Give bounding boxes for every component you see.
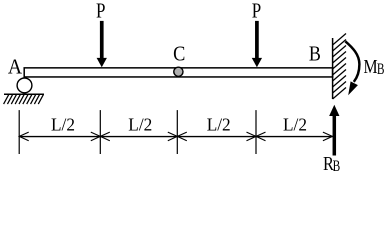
dimension tick below P2	[255, 110, 257, 154]
svg-text:P: P	[252, 0, 261, 23]
svg-text:L/2: L/2	[207, 115, 231, 135]
roller support at A	[17, 78, 32, 93]
moment arrowhead	[348, 81, 358, 95]
svg-text:B: B	[333, 158, 341, 175]
svg-text:M: M	[363, 57, 377, 78]
dimension arrowheads segment 2	[100, 132, 177, 141]
dimension arrowheads segment 4	[256, 132, 332, 141]
dimension tick below C	[176, 110, 178, 154]
fixed wall line at B	[332, 38, 334, 99]
moment arrow MB arc	[345, 41, 359, 82]
hinge at C	[174, 67, 183, 76]
force arrow P left	[97, 21, 107, 67]
svg-text:A: A	[8, 55, 23, 79]
ground line at A	[4, 93, 44, 95]
dimension tick below P1	[99, 110, 101, 154]
reaction arrow RB	[329, 105, 339, 156]
svg-text:P: P	[96, 0, 105, 23]
dimension arrowheads segment 3	[177, 132, 256, 141]
dimension arrowheads segment 1	[19, 132, 100, 141]
dimension line	[19, 136, 332, 138]
svg-text:C: C	[173, 42, 185, 66]
force arrow P right	[252, 21, 262, 67]
svg-text:L/2: L/2	[283, 115, 307, 135]
beam AB	[24, 68, 332, 77]
svg-text:L/2: L/2	[128, 115, 152, 135]
wall hatching at B	[333, 34, 346, 100]
svg-text:B: B	[309, 42, 321, 66]
dimension tick at A	[18, 110, 20, 154]
svg-text:L/2: L/2	[51, 115, 75, 135]
svg-text:B: B	[377, 61, 385, 78]
ground hatching at A	[4, 94, 44, 104]
